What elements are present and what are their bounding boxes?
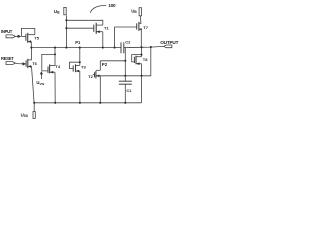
junction: T4 source at ground rail <box>54 102 56 104</box>
wire: T4 gate loop <box>42 54 55 71</box>
svg-text:T1: T1 <box>104 26 109 31</box>
wire: T8 gate loop <box>132 55 142 62</box>
node P2 wire <box>100 60 125 62</box>
svg-text:UB: UB <box>54 9 60 15</box>
ground terminal USS <box>33 112 35 119</box>
junction: source net at C1 column <box>124 75 126 77</box>
junction: T2 source at ground rail <box>99 102 101 104</box>
svg-text:T7: T7 <box>143 25 148 30</box>
svg-text:UB: UB <box>131 8 137 14</box>
svg-text:UVW: UVW <box>36 80 44 86</box>
transistor T7 <box>115 22 142 48</box>
figure number 100 leader arc <box>90 5 106 12</box>
wire: input lead <box>15 35 18 37</box>
transistor T5 <box>21 28 34 47</box>
svg-text:T4: T4 <box>55 64 60 69</box>
svg-text:RESET: RESET <box>1 56 14 61</box>
supply terminal UB left <box>64 7 66 14</box>
svg-text:100: 100 <box>108 3 116 8</box>
capacitor C2 <box>121 42 124 53</box>
ground rail <box>34 102 141 104</box>
svg-text:C2: C2 <box>125 40 131 45</box>
svg-text:INPUT: INPUT <box>1 29 13 34</box>
wire: T3 gate loop <box>70 62 80 68</box>
svg-text:T3: T3 <box>81 65 86 70</box>
junction: source net at T8 <box>140 75 142 77</box>
wire: UB right terminal down to T7 <box>140 16 143 23</box>
transistor T3 <box>70 48 80 103</box>
svg-text:T2: T2 <box>88 74 93 79</box>
svg-text:T6: T6 <box>32 61 37 66</box>
Uvw bias arrow <box>40 74 42 79</box>
junction: T8 gate loop at drain <box>141 54 143 56</box>
transistor T8 <box>132 47 142 103</box>
capacitor C1 column <box>124 47 126 81</box>
junction: T3 source at ground rail <box>79 102 81 104</box>
junction: T1 drain on node P1 <box>102 47 104 49</box>
junction: UB vertical on node P1 <box>65 47 67 49</box>
wire: UB left terminal down to node P1 rail <box>65 15 67 47</box>
junction: UB vertical at T1 gate wire <box>65 27 67 29</box>
INPUT flag <box>6 35 15 38</box>
junction: T7/T8 on output wire <box>140 46 142 48</box>
junction: node P2 wire at C1 column <box>124 60 126 62</box>
OUTPUT flag <box>164 45 172 48</box>
junction: T3 gate loop at drain <box>79 61 81 63</box>
wire: USS drop <box>33 103 35 112</box>
wire: top rail from UB vertical to T1 source <box>66 20 102 25</box>
wire: reset lead <box>15 62 22 65</box>
wire: T5 gate-drain loop <box>21 28 34 36</box>
wire: T1 gate wire <box>66 27 93 29</box>
junction: C1 at ground rail <box>124 102 126 104</box>
wire: T7 gate to node P1 <box>115 27 137 48</box>
junction: USS at ground rail <box>33 102 35 104</box>
wire: output to source net bypass <box>142 47 151 76</box>
transistor T2 <box>93 61 101 103</box>
junction: bypass on output wire <box>150 46 152 48</box>
reset arrowhead <box>23 62 27 65</box>
svg-text:P2: P2 <box>102 62 108 67</box>
output wire <box>124 46 164 47</box>
svg-text:T8: T8 <box>143 57 148 62</box>
source net wire <box>96 75 141 77</box>
junction: T3 drain on node P1 <box>79 47 81 49</box>
junction: T7 gate on node P1 <box>114 47 116 49</box>
input arrowhead <box>18 35 22 38</box>
supply terminal UB right <box>139 8 141 16</box>
junction: T4 gate loop at drain <box>54 53 56 55</box>
svg-text:OUTPUT: OUTPUT <box>160 40 178 45</box>
node P1 rail <box>31 47 121 49</box>
junction: UB vertical at top rail <box>65 19 67 21</box>
capacitor C1 <box>119 81 132 84</box>
svg-text:P1: P1 <box>75 40 81 45</box>
svg-text:USS: USS <box>21 112 28 118</box>
transistor T6 <box>26 48 34 103</box>
transistor T1 <box>94 23 103 48</box>
transistor T4 <box>42 48 55 103</box>
svg-text:C1: C1 <box>126 88 132 93</box>
svg-text:T5: T5 <box>34 35 39 40</box>
junction: T5/T6 on node P1 <box>30 47 32 49</box>
RESET flag <box>6 62 15 65</box>
junction: T4 drain on node P1 <box>54 47 56 49</box>
